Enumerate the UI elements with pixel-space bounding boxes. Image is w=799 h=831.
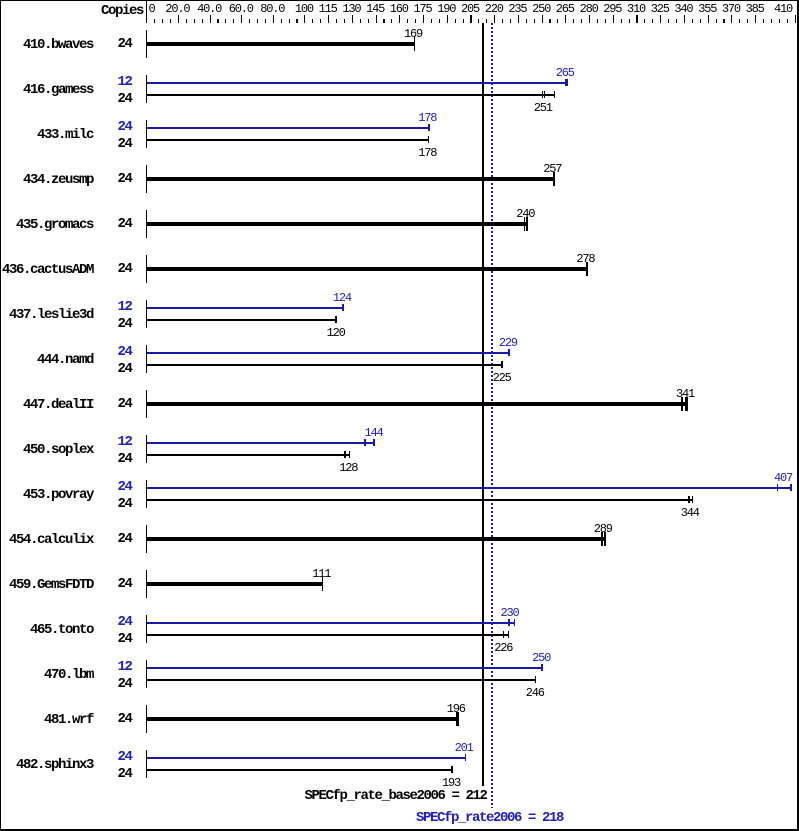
row 435.gromacs axis segment (146, 210, 147, 238)
benchmark name 470.lbm (44, 669, 93, 681)
row 453.povray axis segment (146, 480, 147, 508)
row 433.milc axis segment (146, 120, 147, 148)
value label 226 465.tonto (494, 643, 512, 653)
run tick 416.gamess (542, 91, 543, 98)
bar 433.milc base (178) (147, 139, 429, 141)
copies label 24 433.milc (118, 121, 132, 133)
row 444.namd axis segment (146, 345, 147, 373)
row 481.wrf axis segment (146, 705, 147, 733)
value label 111 459.GemsFDTD (312, 569, 330, 579)
value label 265 416.gamess (556, 68, 574, 78)
row 447.dealII axis segment (146, 390, 147, 418)
axis scale labels (149, 4, 155, 14)
run tick 416.gamess (544, 91, 545, 98)
value label 407 453.povray (774, 473, 792, 483)
bar end cap 436.cactusADM 278 (586, 262, 588, 276)
copies label 12 470.lbm (118, 661, 132, 673)
copies label 12 437.leslie3d (118, 301, 132, 313)
bar 434.zeusmp base (257) (147, 177, 555, 181)
value label 341 447.dealII (676, 389, 694, 399)
bar 470.lbm base (246) (147, 679, 536, 681)
bar end cap 465.tonto 230 (514, 619, 516, 626)
copies label 24 444.namd (118, 363, 132, 375)
header Copies label (101, 5, 143, 17)
copies label 24 454.calculix (118, 533, 132, 545)
bar end cap 482.sphinx3 193 (451, 766, 454, 773)
value label 193 482.sphinx3 (442, 778, 460, 788)
bar end cap 470.lbm 246 (535, 676, 536, 683)
bar 482.sphinx3 peak (201) (147, 757, 466, 759)
value label 178 433.milc (418, 113, 436, 123)
bar end cap 447.dealII 341 (685, 397, 688, 411)
value label 178 433.milc (418, 148, 436, 158)
frame top (0, 0, 799, 1)
bar end cap 450.soplex 128 (349, 451, 351, 458)
bar end cap 434.zeusmp 257 (553, 172, 555, 186)
bar end cap 437.leslie3d 124 (342, 304, 344, 311)
value label 196 481.wrf (447, 704, 465, 714)
bar 481.wrf base (196) (147, 717, 459, 721)
row 470.lbm axis segment (146, 660, 147, 688)
copies label 24 465.tonto (118, 616, 132, 628)
summary SPECfp_rate_base2006 (305, 790, 487, 802)
value label 230 465.tonto (501, 608, 519, 618)
bar end cap 453.povray 344 (692, 496, 694, 503)
copies label 12 450.soplex (118, 436, 132, 448)
benchmark name 433.milc (37, 129, 93, 141)
value label 257 434.zeusmp (543, 164, 561, 174)
bar end cap 465.tonto 226 (508, 631, 509, 638)
copies label 24 481.wrf (118, 713, 132, 725)
copies label 24 465.tonto (118, 633, 132, 645)
bar 444.namd base (225) (147, 364, 503, 366)
copies label 24 410.bwaves (118, 38, 132, 50)
SPECfp_rate_base2006 mean line (212) (482, 23, 484, 786)
run tick 465.tonto (503, 631, 505, 638)
bar 433.milc peak (178) (147, 127, 430, 129)
copies label 24 435.gromacs (118, 218, 132, 230)
bar 435.gromacs base (240) (147, 222, 528, 226)
bar end cap 435.gromacs 240 (526, 217, 528, 231)
copies label 24 436.cactusADM (118, 263, 132, 275)
bar end cap 454.calculix 289 (604, 532, 606, 546)
value label 251 416.gamess (534, 103, 552, 113)
bar 410.bwaves base (169) (147, 42, 415, 46)
row 482.sphinx3 axis segment (146, 750, 147, 778)
value label 144 450.soplex (365, 428, 383, 438)
row 437.leslie3d axis segment (146, 300, 147, 328)
bar end cap 470.lbm 250 (541, 664, 543, 671)
frame left (0, 0, 1, 831)
copies label 24 437.leslie3d (118, 318, 132, 330)
bar end cap 433.milc 178 (428, 136, 429, 143)
run tick 450.soplex (364, 439, 366, 446)
bar 447.dealII base (341) (147, 402, 688, 406)
row 459.GemsFDTD axis segment (146, 570, 147, 598)
bar end cap 410.bwaves 169 (414, 37, 416, 51)
benchmark name 444.namd (37, 354, 93, 366)
bar end cap 453.povray 407 (790, 484, 792, 491)
benchmark name 459.GemsFDTD (9, 579, 93, 591)
copies label 24 416.gamess (118, 93, 132, 105)
bar 482.sphinx3 base (193) (147, 769, 453, 771)
run tick 453.povray (777, 484, 779, 491)
benchmark name 450.soplex (23, 444, 93, 456)
copies label 24 453.povray (118, 498, 132, 510)
benchmark name 410.bwaves (23, 39, 93, 51)
bar end cap 444.namd 225 (501, 361, 503, 368)
SPECfp_rate2006 mean line (218, dotted) (491, 23, 493, 808)
bar 437.leslie3d base (120) (147, 319, 337, 321)
benchmark name 447.dealII (23, 399, 93, 411)
value label 240 435.gromacs (516, 209, 534, 219)
benchmark name 482.sphinx3 (16, 759, 93, 771)
value label 169 410.bwaves (404, 29, 422, 39)
copies label 24 450.soplex (118, 453, 132, 465)
benchmark name 416.gamess (23, 84, 93, 96)
bar end cap 481.wrf 196 (456, 712, 459, 726)
bar end cap 416.gamess 265 (565, 79, 568, 86)
value label 250 470.lbm (532, 653, 550, 663)
run tick 450.soplex (344, 451, 346, 458)
frame bottom (0, 829, 799, 831)
bar end cap 433.milc 178 (428, 124, 430, 131)
row 454.calculix axis segment (146, 525, 147, 553)
bar 470.lbm peak (250) (147, 667, 543, 669)
benchmark name 435.gromacs (16, 219, 93, 231)
value label 120 437.leslie3d (327, 328, 345, 338)
value label 128 450.soplex (339, 463, 357, 473)
bar end cap 444.namd 229 (508, 349, 510, 356)
frame right (797, 0, 799, 831)
value label 278 436.cactusADM (576, 254, 594, 264)
bar 416.gamess base (251) (147, 94, 555, 96)
value label 344 453.povray (681, 508, 699, 518)
benchmark name 453.povray (23, 489, 93, 501)
run tick 447.dealII (681, 397, 683, 411)
copies label 24 482.sphinx3 (118, 751, 132, 763)
bar 450.soplex base (128) (147, 454, 350, 456)
bar end cap 450.soplex 144 (373, 439, 375, 446)
bar end cap 459.GemsFDTD 111 (322, 577, 323, 591)
row 436.cactusADM axis segment (146, 255, 147, 283)
run tick 435.gromacs (524, 217, 525, 231)
run tick 454.calculix (601, 532, 603, 546)
value label 124 437.leslie3d (333, 293, 351, 303)
row 450.soplex axis segment (146, 435, 147, 463)
value label 246 470.lbm (526, 688, 544, 698)
bar 444.namd peak (229) (147, 352, 510, 354)
row 465.tonto axis segment (146, 615, 147, 643)
bar 436.cactusADM base (278) (147, 267, 588, 271)
copies label 12 416.gamess (118, 76, 132, 88)
value label 229 444.namd (499, 338, 517, 348)
value label 225 444.namd (493, 373, 511, 383)
copies label 24 482.sphinx3 (118, 768, 132, 780)
bar 453.povray base (344) (147, 499, 693, 501)
copies label 24 434.zeusmp (118, 173, 132, 185)
header separator line (146, 1, 147, 23)
bar 454.calculix base (289) (147, 537, 606, 541)
copies label 24 453.povray (118, 481, 132, 493)
bar end cap 437.leslie3d 120 (335, 316, 337, 323)
bar 450.soplex peak (144) (147, 442, 375, 444)
copies label 24 444.namd (118, 346, 132, 358)
bar end cap 416.gamess 251 (554, 91, 555, 98)
bar 465.tonto base (226) (147, 634, 509, 636)
run tick 453.povray (688, 496, 690, 503)
bar 465.tonto peak (230) (147, 622, 515, 624)
copies label 24 470.lbm (118, 678, 132, 690)
copies label 24 433.milc (118, 138, 132, 150)
copies label 24 459.GemsFDTD (118, 578, 132, 590)
bar 453.povray peak (407) (147, 487, 792, 489)
benchmark name 481.wrf (44, 714, 93, 726)
row 410.bwaves axis segment (146, 30, 147, 58)
value label 289 454.calculix (594, 524, 612, 534)
bar 437.leslie3d peak (124) (147, 307, 344, 309)
bar 459.GemsFDTD base (111) (147, 582, 323, 586)
run tick 465.tonto (508, 619, 510, 626)
axis scale ticks (154, 19, 155, 23)
benchmark name 436.cactusADM (2, 264, 93, 276)
copies label 24 447.dealII (118, 398, 132, 410)
summary SPECfp_rate2006 (416, 812, 563, 824)
row 434.zeusmp axis segment (146, 165, 147, 193)
benchmark name 454.calculix (9, 534, 93, 546)
benchmark name 437.leslie3d (9, 309, 93, 321)
benchmark name 434.zeusmp (23, 174, 93, 186)
bar 416.gamess peak (265) (147, 82, 568, 84)
bar end cap 482.sphinx3 201 (465, 754, 466, 761)
benchmark name 465.tonto (30, 624, 93, 636)
row 416.gamess axis segment (146, 75, 147, 103)
value label 201 482.sphinx3 (455, 743, 473, 753)
